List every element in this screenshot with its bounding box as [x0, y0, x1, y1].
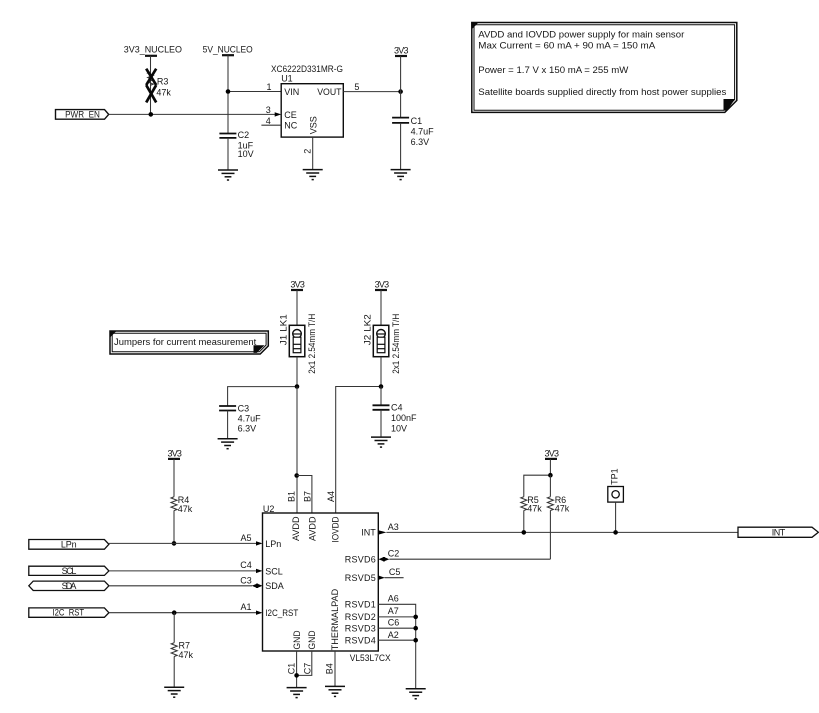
svg-text:2x1 2.54mm T/H: 2x1 2.54mm T/H: [307, 314, 317, 374]
capacitor C2 1uF 10V: [219, 130, 253, 159]
junction C1/C7: [294, 673, 299, 678]
svg-text:R3: R3: [157, 77, 169, 87]
svg-text:THERMALPAD: THERMALPAD: [330, 588, 340, 650]
svg-text:NC: NC: [284, 121, 297, 131]
svg-text:Jumpers for current measuremen: Jumpers for current measurement: [114, 337, 257, 347]
power rail 3V3 (J1): [290, 280, 305, 291]
jumper J1 LK1 2x1 2.54mm T/H: [278, 314, 317, 374]
power rail 3V3 (top): [394, 46, 409, 56]
wire VIN: [228, 91, 281, 93]
capacitor C3 4.7uF 6.3V: [219, 403, 261, 433]
svg-text:2x1 2.54mm T/H: 2x1 2.54mm T/H: [391, 314, 401, 374]
wire RSVD2: [378, 616, 415, 618]
svg-text:GND: GND: [307, 630, 317, 649]
IC U2 VL53L7CX: [263, 504, 391, 663]
svg-text:A3: A3: [388, 522, 399, 532]
svg-text:RSVD6: RSVD6: [345, 555, 376, 565]
ground under C4: [371, 437, 391, 447]
svg-text:RSVD3: RSVD3: [345, 624, 376, 634]
port LPn: [29, 539, 109, 549]
svg-text:B4: B4: [324, 663, 334, 674]
resistor R5 47k: [521, 495, 543, 532]
wire THERMALPAD B4 to ground: [334, 651, 336, 686]
svg-text:Max Current = 60 mA + 90 mA =: Max Current = 60 mA + 90 mA = 150 mA: [478, 41, 655, 51]
junction TP1/INT: [613, 530, 618, 535]
wire 3V3 to C1: [400, 56, 402, 117]
power rail 3V3_NUCLEO: [124, 45, 182, 56]
svg-text:I2C_RST: I2C_RST: [265, 608, 298, 618]
wire I2C_RST to A1: [109, 612, 256, 614]
svg-text:VSS: VSS: [309, 116, 319, 134]
junction I2C_RST/R7: [172, 610, 177, 615]
svg-text:U2: U2: [263, 504, 275, 514]
port INT: [738, 527, 818, 537]
junction RSVD3: [413, 626, 418, 631]
svg-text:4.7uF: 4.7uF: [411, 127, 435, 137]
svg-text:INT: INT: [361, 528, 376, 538]
svg-text:3V3: 3V3: [375, 280, 390, 290]
svg-text:J2 LK2: J2 LK2: [363, 314, 373, 345]
svg-text:A2: A2: [388, 630, 399, 640]
svg-text:A7: A7: [388, 606, 399, 616]
wire GND C1 to ground: [296, 651, 298, 688]
svg-text:RSVD2: RSVD2: [345, 612, 376, 622]
wire 3V3 to J1: [296, 290, 298, 325]
capacitor C4 100nF 10V: [373, 403, 418, 434]
svg-text:SDA: SDA: [62, 581, 77, 591]
NC stub: [261, 124, 281, 126]
svg-text:U1: U1: [281, 74, 293, 84]
wire INT: [386, 531, 738, 533]
junction RSVD2: [413, 615, 418, 620]
ground under R7: [164, 687, 184, 697]
svg-text:XC6222D331MR-G: XC6222D331MR-G: [271, 64, 343, 74]
wire C3 branch: [228, 387, 297, 406]
wire C3 to ground: [227, 411, 229, 439]
svg-text:VOUT: VOUT: [317, 87, 342, 97]
svg-text:C5: C5: [389, 567, 401, 577]
svg-text:AVDD: AVDD: [291, 516, 301, 541]
power rail 3V3 (J2): [375, 280, 390, 291]
junction PWR_EN/R3: [149, 112, 154, 117]
ground under C1: [391, 170, 411, 180]
C4 pin arrowhead: [256, 569, 263, 573]
wire C4 to ground: [380, 410, 382, 437]
test point TP1: [608, 468, 624, 502]
A1 arrowhead: [256, 611, 263, 615]
RSVD5 stub: [385, 577, 404, 579]
wire C1 to ground: [400, 123, 402, 170]
svg-text:SCL: SCL: [62, 566, 77, 576]
regulator U1 XC6222D331MR-G: [271, 64, 343, 137]
wire J1 to AVDD node: [296, 357, 298, 387]
svg-text:100nF: 100nF: [391, 413, 417, 423]
svg-text:IOVDD: IOVDD: [330, 516, 340, 542]
junction J1/C3: [295, 384, 300, 389]
svg-text:6.3V: 6.3V: [411, 137, 430, 147]
RSVD6 double arrowhead: [378, 557, 389, 561]
ground under C1/C7: [287, 688, 307, 698]
wire C2 to ground: [227, 138, 229, 170]
svg-text:VIN: VIN: [284, 87, 299, 97]
svg-text:GND: GND: [292, 630, 302, 649]
wire IOVDD branch to A4: [336, 387, 381, 514]
svg-text:C4: C4: [391, 403, 403, 413]
INT output arrowhead: [378, 530, 386, 534]
svg-text:Satellite boards supplied dire: Satellite boards supplied directly from …: [478, 87, 727, 97]
svg-text:47k: 47k: [179, 650, 194, 660]
wire LPn to A5: [109, 542, 256, 544]
wire PWR_EN to CE: [109, 113, 275, 115]
svg-text:C4: C4: [240, 560, 252, 570]
svg-text:5V_NUCLEO: 5V_NUCLEO: [203, 45, 253, 55]
svg-text:3V3: 3V3: [545, 449, 560, 459]
svg-text:SDA: SDA: [265, 581, 284, 591]
svg-text:RSVD5: RSVD5: [345, 573, 376, 583]
C3 pin double arrowhead: [252, 584, 263, 588]
junction J2/C4: [379, 384, 384, 389]
RSVD5 output arrowhead: [378, 576, 385, 580]
svg-text:INT: INT: [772, 527, 786, 537]
ground under B4: [325, 686, 345, 696]
junction B1/B7: [294, 473, 299, 478]
svg-text:3V3_NUCLEO: 3V3_NUCLEO: [124, 45, 182, 55]
wire RSVD3: [378, 627, 415, 629]
svg-text:47k: 47k: [156, 87, 171, 97]
svg-text:LPn: LPn: [265, 539, 281, 549]
port SCL: [29, 566, 109, 576]
svg-text:Power = 1.7 V x 150 mA = 255 m: Power = 1.7 V x 150 mA = 255 mW: [478, 65, 629, 75]
resistor R3 47k (not fitted, crossed out): [146, 56, 171, 115]
svg-text:A5: A5: [240, 533, 251, 543]
svg-text:3V3: 3V3: [394, 46, 409, 56]
port PWR_EN: [56, 109, 109, 119]
svg-text:3: 3: [266, 105, 271, 115]
ground under C3: [218, 439, 238, 449]
wire 5V_NUCLEO down to C2: [227, 55, 229, 133]
U2 right pin names: [345, 528, 377, 646]
svg-text:4: 4: [266, 116, 271, 126]
svg-text:3V3: 3V3: [167, 448, 182, 458]
junction R5/R6: [548, 473, 553, 478]
power rail 3V3 (R5/R6): [545, 449, 560, 459]
wire VSS pin 2 to ground: [312, 137, 314, 170]
wire J2 to IOVDD node: [380, 357, 382, 387]
junction R4/LPn: [172, 541, 177, 546]
svg-text:1: 1: [266, 82, 271, 92]
svg-text:AVDD and IOVDD power supply fo: AVDD and IOVDD power supply for main sen…: [478, 29, 684, 39]
wire RSVD4: [378, 639, 415, 641]
A5 arrowhead: [256, 541, 263, 545]
note box: power supply note: [472, 23, 737, 113]
wire AVDD node down to B1: [296, 387, 298, 514]
port SDA (bidirectional): [29, 581, 109, 591]
svg-text:B1: B1: [287, 491, 297, 502]
junction RSVD4: [413, 638, 418, 643]
wire 3V3 to R5/R6 node: [549, 459, 551, 475]
svg-text:VL53L7CX: VL53L7CX: [350, 653, 391, 663]
svg-text:AVDD: AVDD: [308, 516, 318, 541]
wire 3V3 to J2: [380, 290, 382, 325]
wire RSVD6 to R6: [389, 558, 550, 560]
ground under C2: [218, 170, 238, 180]
wire RSVD1 to bus: [378, 604, 415, 689]
wire VOUT to 3V3: [343, 91, 400, 93]
svg-text:4.7uF: 4.7uF: [238, 414, 262, 424]
wire J2 node to C4: [380, 387, 382, 405]
svg-text:C1: C1: [411, 116, 423, 126]
svg-text:I2C_RST: I2C_RST: [53, 608, 85, 618]
junction R5/INT: [522, 530, 527, 535]
power rail 3V3 (R4): [167, 448, 182, 459]
svg-text:C6: C6: [388, 618, 400, 628]
U2 left pin names: [265, 539, 298, 618]
svg-text:6.3V: 6.3V: [238, 424, 257, 434]
svg-text:C1: C1: [287, 663, 297, 675]
svg-text:47k: 47k: [555, 504, 570, 514]
wire SCL to C4 pin: [109, 570, 256, 572]
ground under VSS: [303, 170, 323, 180]
svg-text:LPn: LPn: [61, 539, 77, 549]
svg-text:A6: A6: [388, 594, 399, 604]
svg-text:47k: 47k: [178, 504, 193, 514]
wire R5 branch: [524, 475, 551, 497]
ground under RSVD bus: [406, 689, 426, 699]
svg-text:A4: A4: [326, 491, 336, 502]
svg-text:5: 5: [354, 82, 359, 92]
svg-text:C3: C3: [240, 575, 252, 585]
svg-text:RSVD1: RSVD1: [345, 600, 376, 610]
svg-text:47k: 47k: [527, 504, 542, 514]
wire B7 branch: [297, 476, 312, 514]
svg-text:TP1: TP1: [609, 468, 619, 485]
resistor R7 47k: [171, 613, 193, 688]
junction 5V/VIN: [226, 89, 231, 94]
capacitor C1 4.7uF 6.3V: [392, 116, 434, 147]
wire SDA to C3 pin: [109, 585, 252, 587]
svg-text:RSVD4: RSVD4: [345, 636, 376, 646]
svg-text:3V3: 3V3: [290, 280, 305, 290]
port I2C_RST: [29, 608, 109, 618]
CE input arrowhead: [275, 112, 282, 116]
jumper J2 LK2 2x1 2.54mm T/H: [363, 314, 401, 374]
svg-text:J1 LK1: J1 LK1: [278, 314, 288, 345]
junction VOUT/C1: [398, 89, 403, 94]
svg-text:10V: 10V: [238, 149, 254, 159]
svg-text:C3: C3: [238, 403, 250, 413]
svg-text:10V: 10V: [391, 423, 407, 433]
wire GND C7 branch: [297, 651, 312, 675]
svg-text:SCL: SCL: [265, 566, 283, 576]
power rail 5V_NUCLEO: [203, 45, 253, 56]
svg-text:A1: A1: [240, 602, 251, 612]
wire TP1 to INT: [615, 502, 617, 532]
svg-text:PWR_EN: PWR_EN: [65, 109, 100, 119]
note box: jumpers note: [110, 331, 268, 354]
svg-text:B7: B7: [302, 491, 312, 502]
svg-text:C7: C7: [303, 663, 313, 675]
svg-text:C2: C2: [388, 549, 400, 559]
svg-text:C2: C2: [238, 130, 250, 140]
resistor R4 47k: [171, 459, 193, 544]
svg-text:CE: CE: [284, 110, 297, 120]
svg-text:2: 2: [303, 149, 313, 154]
resistor R6 47k: [547, 475, 569, 559]
